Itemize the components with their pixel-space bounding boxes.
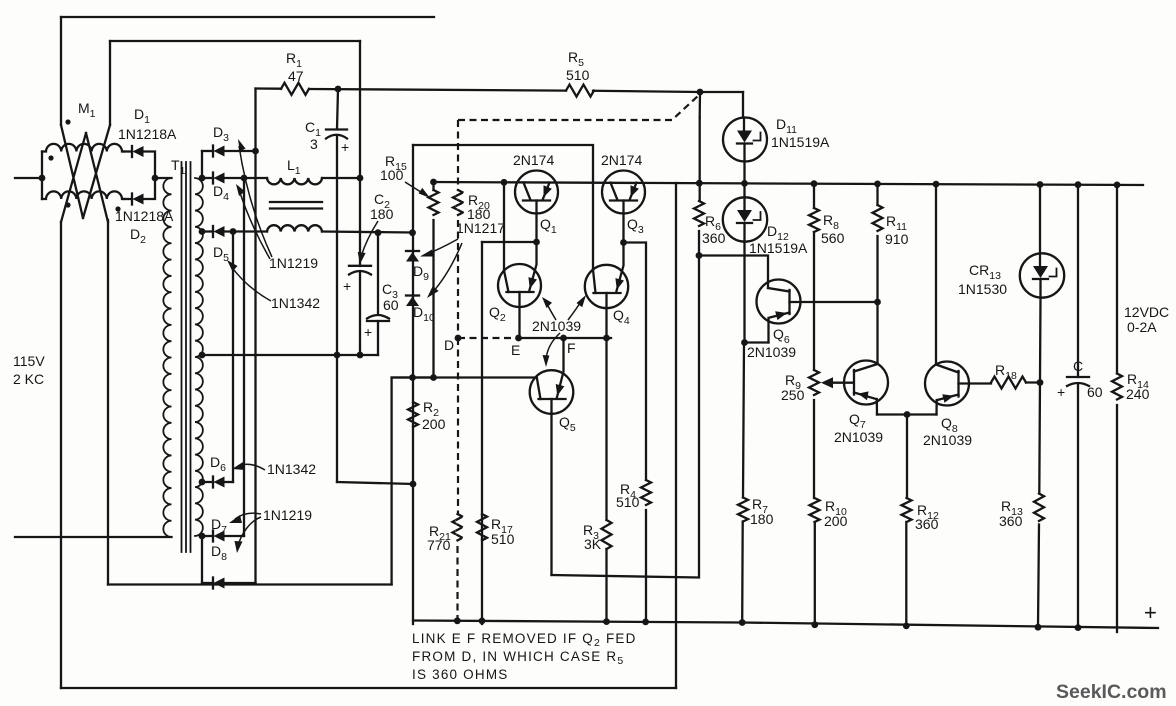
- svg-text:200: 200: [824, 513, 848, 529]
- polarity dot M1 d: [65, 202, 70, 207]
- wire D9 branch main vertical: [412, 145, 414, 624]
- wire R11 to Q7 node: [876, 236, 878, 302]
- resistor R11: [873, 205, 883, 231]
- junction dot L1-C2 node: [357, 175, 364, 182]
- junction dot Q5 collector node: [409, 374, 416, 381]
- resistor R15: [429, 190, 439, 215]
- label arrow 1N1217 to D9: [427, 239, 458, 254]
- svg-text:D: D: [444, 337, 454, 353]
- wire R4 lower: [645, 510, 647, 622]
- wire D5 anode: [202, 230, 213, 232]
- wire R17 branch: [481, 242, 483, 624]
- magnetic amplifier M1 bottom winding: [42, 191, 124, 199]
- wire R5 output drop to D11: [700, 92, 743, 118]
- wire L1 to node: [322, 177, 360, 179]
- wire D7 riser: [243, 178, 245, 536]
- svg-text:510: 510: [616, 494, 640, 510]
- label arrow 1N1219 to D8: [238, 517, 261, 546]
- wire R7 lower: [741, 522, 744, 623]
- wire node to T1 primary: [155, 177, 172, 179]
- junction dot R10 bus: [811, 621, 818, 628]
- resistor R20 dashed: [453, 190, 463, 215]
- wire M1 bottom to D2: [124, 198, 132, 200]
- junction dot R15 top: [430, 179, 437, 186]
- diode D11 1N1519A: [723, 118, 767, 162]
- wire Q6 collector link: [699, 256, 768, 289]
- wire C1 branch lower: [336, 136, 338, 482]
- inductor L1 lower winding: [267, 225, 322, 231]
- magnetic amplifier M1 top winding: [42, 144, 124, 152]
- wire C3 lower lead: [377, 321, 379, 355]
- svg-text:180: 180: [370, 206, 394, 222]
- resistor R17: [477, 514, 487, 540]
- wire C lower: [1077, 385, 1079, 628]
- magnetic amplifier M1 core cross lines: [61, 125, 110, 222]
- wire secondary top riser to D3 row: [201, 151, 203, 178]
- wire Q5 collector line: [392, 376, 537, 378]
- label arrow 2N1039 to Q2: [546, 302, 556, 320]
- transistor Q2 2N1039: [498, 242, 541, 338]
- wire C3 upper lead: [377, 233, 379, 314]
- transistor Q7 2N1039: [844, 361, 888, 415]
- wire CR13 lower: [1038, 298, 1041, 628]
- label arrow 2N1039 to Q5: [546, 333, 560, 360]
- svg-text:510: 510: [491, 531, 515, 547]
- wire dashed R21 branch: [457, 338, 459, 514]
- wire outer border right riser: [675, 183, 677, 688]
- junction dot R6 row A: [696, 180, 703, 187]
- wire D3 anode: [202, 150, 213, 152]
- junction dot R7 bus: [739, 619, 746, 626]
- svg-text:1N1519A: 1N1519A: [749, 240, 808, 256]
- label arrow R15: [405, 182, 424, 194]
- wire R3 lower: [605, 549, 607, 622]
- transistor Q4 2N1039: [585, 243, 628, 339]
- wire Q6 emitter to D12 node: [745, 341, 769, 343]
- junction dot E: [515, 335, 522, 342]
- svg-text:1N1530: 1N1530: [958, 281, 1007, 297]
- svg-text:560: 560: [821, 230, 845, 246]
- wire D3 to node: [225, 150, 256, 152]
- svg-text:360: 360: [702, 230, 726, 246]
- svg-text:2N1039: 2N1039: [923, 432, 972, 448]
- junction dot F: [560, 335, 567, 342]
- node 115V input bottom lead: [15, 536, 172, 538]
- wire R14 lower: [1116, 405, 1118, 632]
- wire C1 line elbow to R2 line: [337, 482, 413, 484]
- svg-text:910: 910: [885, 231, 909, 247]
- svg-text:+: +: [364, 324, 372, 340]
- junction dot input-M1: [39, 175, 46, 182]
- svg-text:+: +: [343, 278, 351, 294]
- junction dot C bus: [1075, 624, 1082, 631]
- inductor L1 upper winding: [267, 178, 322, 184]
- wire E-F link row: [519, 337, 612, 339]
- svg-text:1N1219: 1N1219: [269, 255, 318, 271]
- wire R1-D3-D8 riser: [254, 89, 256, 584]
- junction dot Q2 collector riser top: [501, 179, 508, 186]
- polarity dot M1 b: [48, 155, 53, 160]
- label arrow 1N1342 to D6: [238, 464, 265, 470]
- wire inner border top: [110, 40, 360, 42]
- junction dot T1 tap D5: [199, 228, 206, 235]
- diode D6: [212, 477, 214, 488]
- junction dot R6 bottom: [696, 252, 703, 259]
- wire output negative bus: [413, 621, 1158, 629]
- svg-text:+: +: [1144, 600, 1157, 625]
- svg-text:F: F: [567, 340, 576, 356]
- wire inner border lower-left riser: [107, 220, 109, 585]
- junction dot T1 center tap: [199, 352, 206, 359]
- wire outer border left: [60, 17, 62, 688]
- label arrow 1N1219 to D4: [239, 190, 270, 259]
- junction dot D3-D8-R1: [252, 148, 259, 155]
- wire R12 lower: [905, 522, 907, 626]
- svg-text:360: 360: [915, 516, 939, 532]
- wire outer border bottom: [61, 687, 676, 689]
- junction dot R8 row A: [811, 180, 818, 187]
- junction dot R1-C1: [335, 86, 342, 93]
- wire Q2 collector riser: [503, 182, 505, 270]
- junction dot C row A: [1075, 181, 1082, 188]
- svg-text:1N1342: 1N1342: [267, 461, 316, 477]
- svg-text:47: 47: [288, 68, 304, 84]
- svg-text:+: +: [341, 139, 349, 155]
- wire Q5 base row to R6 node: [552, 256, 700, 578]
- wire D12 to emitter node: [743, 242, 745, 343]
- resistor R6: [694, 201, 704, 226]
- svg-text:0-2A: 0-2A: [1127, 319, 1157, 335]
- resistor R4: [641, 480, 651, 505]
- svg-text:250: 250: [781, 387, 805, 403]
- junction dot D4-D7: [241, 175, 248, 182]
- diode D10 1N1217: [406, 294, 419, 296]
- wire R3 branch: [605, 338, 607, 520]
- wire main positive row A: [434, 182, 1144, 185]
- wire D8 anode: [202, 582, 213, 584]
- wire R6 lower: [698, 231, 700, 256]
- wire D2 to T1 node: [144, 178, 156, 199]
- resistor R3: [602, 520, 612, 549]
- transistor Q1 2N174: [515, 171, 558, 243]
- wire R9 to R10: [813, 400, 815, 498]
- wire R12 branch: [906, 415, 908, 499]
- wire D4 anode: [202, 177, 213, 179]
- svg-text:510: 510: [566, 67, 590, 83]
- wire D11 to row A: [743, 162, 745, 198]
- svg-text:3: 3: [310, 136, 318, 152]
- resistor R1: [281, 83, 309, 95]
- wire dashed R20 branch upper: [457, 120, 459, 190]
- junction dot Q4 base R3 node: [603, 335, 610, 342]
- label arrow C2: [361, 221, 378, 257]
- junction dot D5-D6: [230, 228, 237, 235]
- wire inner border left: [109, 41, 111, 125]
- diode D2 1N1218A: [131, 194, 133, 205]
- wire R9 wiper from Q7 base: [829, 382, 854, 384]
- wire M1 top to D1: [124, 150, 132, 152]
- wire D4 row to L1: [225, 177, 268, 179]
- wire D6 riser: [232, 232, 234, 483]
- diode D5: [212, 226, 214, 237]
- wire D6 to riser: [225, 481, 234, 483]
- resistor R10: [810, 498, 820, 522]
- junction dot R11 row A: [874, 181, 881, 188]
- wire D6 anode: [202, 481, 213, 483]
- wire dashed feedback top: [458, 95, 700, 121]
- wire dashed D link row: [458, 337, 519, 339]
- wire inner border right riser to Q5 node: [392, 378, 434, 585]
- svg-text:+: +: [1057, 384, 1065, 400]
- svg-text:360: 360: [999, 513, 1023, 529]
- junction dot Q3 base node: [620, 239, 627, 246]
- transistor Q3 2N174: [602, 171, 645, 243]
- capacitor C2: [349, 265, 371, 267]
- label arrow 1N1217 to D10: [432, 243, 462, 293]
- wire R1-R5 supply row: [256, 89, 744, 93]
- junction dot R17 bus: [479, 618, 486, 625]
- junction dot T1 bottom tap: [199, 533, 206, 540]
- diode D12 1N1519A: [723, 197, 767, 241]
- junction dot R18 CR13: [1037, 379, 1044, 386]
- transformer T1 primary winding: [163, 178, 171, 537]
- diode D9 1N1217: [406, 250, 419, 252]
- wire dashed R21 lower: [456, 546, 458, 621]
- wire R8 upper: [813, 184, 815, 208]
- resistor R5: [566, 85, 594, 97]
- capacitor C: [1067, 376, 1089, 378]
- transformer T1 core: [182, 162, 191, 552]
- wire R14 upper: [1116, 185, 1118, 374]
- junction dot D6 anode tap: [199, 479, 206, 486]
- svg-text:1N1218A: 1N1218A: [115, 208, 174, 224]
- junction dot C2 row right end: [409, 229, 416, 236]
- capacitor C1: [326, 128, 347, 130]
- wire lower winding to C2 row: [322, 232, 412, 233]
- svg-text:60: 60: [1087, 384, 1103, 400]
- svg-text:1N1219: 1N1219: [263, 507, 312, 523]
- svg-text:IS 360 OHMS: IS 360 OHMS: [412, 667, 508, 682]
- svg-text:240: 240: [1126, 386, 1150, 402]
- wire L1 feed line to Q4 collector: [413, 145, 593, 268]
- transistor Q6 2N1039: [757, 280, 878, 343]
- junction dot R21 bus: [454, 617, 461, 624]
- wire D1 to T1 node: [144, 152, 156, 179]
- svg-text:1N1519A: 1N1519A: [771, 134, 830, 150]
- svg-text:100: 100: [380, 167, 404, 183]
- diode D1 1N1218A: [131, 146, 133, 157]
- label arrow 2N1039 to Q4: [568, 300, 582, 320]
- junction dot D12-R7: [741, 339, 748, 346]
- wire Q8 collector riser: [935, 184, 937, 364]
- node 115V input top lead: [15, 177, 42, 179]
- wire Q7 collector riser: [876, 302, 878, 364]
- junction dot CR13 bus: [1035, 624, 1042, 631]
- diode D8: [212, 578, 214, 589]
- wire D8 to riser: [225, 582, 256, 584]
- junction dot D11-D12 row A: [741, 180, 748, 187]
- inductor L1 core lines: [270, 202, 322, 209]
- resistor R18: [991, 377, 1026, 389]
- wire CR13 upper: [1039, 185, 1041, 254]
- wire outer border top: [61, 16, 434, 18]
- wire R7 branch: [743, 343, 744, 498]
- capacitor C3: [367, 315, 389, 319]
- svg-text:1N1342: 1N1342: [271, 295, 320, 311]
- wire dashed R20 branch lower: [457, 220, 459, 338]
- magnetic amplifier M1 left lead: [41, 152, 43, 200]
- wire R10 lower: [814, 522, 816, 625]
- svg-text:115V: 115V: [13, 353, 45, 369]
- diode CR13 1N1530: [1020, 253, 1064, 297]
- junction dot T1 top tap: [199, 175, 206, 182]
- junction dot R3 bus: [603, 618, 610, 625]
- resistor R2: [408, 402, 418, 427]
- diode D7: [212, 531, 214, 542]
- svg-text:180: 180: [750, 511, 774, 527]
- label arrow 1N1219 to D7: [235, 513, 261, 519]
- transformer T1 secondary winding: [195, 178, 203, 536]
- wire Q3 base to R4 branch: [624, 243, 647, 481]
- junction dot Q1 base node: [533, 239, 540, 246]
- svg-text:200: 200: [422, 416, 446, 432]
- svg-text:2N174: 2N174: [601, 152, 642, 168]
- wire C2 lower lead: [359, 273, 361, 355]
- wire D7 anode: [202, 535, 213, 537]
- polarity dot M1 a: [65, 119, 70, 124]
- wire R15 branch: [432, 182, 434, 378]
- junction dot D: [455, 335, 462, 342]
- transistor Q5 2N1039: [530, 338, 574, 575]
- wire center tap row: [202, 354, 378, 356]
- label arrow 1N1219 to D3: [239, 146, 272, 257]
- svg-text:770: 770: [427, 537, 451, 553]
- svg-text:12VDC: 12VDC: [1124, 304, 1169, 320]
- junction dot D6 wire node: [410, 481, 417, 488]
- wire D7 to riser: [225, 535, 245, 537]
- wire D5 row to lower L1 coil: [225, 230, 268, 232]
- wire inner border bottom: [108, 583, 392, 585]
- svg-text:E: E: [511, 342, 520, 358]
- junction dot R14 row A: [1114, 182, 1121, 189]
- diode D3: [212, 146, 214, 157]
- junction dot C2 bottom: [357, 352, 364, 359]
- wire D8 drop: [201, 536, 203, 583]
- diode D4: [212, 173, 214, 184]
- svg-text:2N174: 2N174: [513, 152, 554, 168]
- junction dot D1-D2-T1: [152, 175, 159, 182]
- wire R6 branch upper: [699, 118, 701, 202]
- junction dot Q6 base R11 node: [874, 299, 881, 306]
- junction dot R4 bus: [642, 619, 649, 626]
- wire R11 upper: [876, 184, 878, 205]
- junction dot C3 top: [375, 229, 382, 236]
- svg-text:2N1039: 2N1039: [834, 429, 883, 445]
- junction dot CR13 row A: [1037, 181, 1044, 188]
- resistor R13: [1034, 494, 1044, 522]
- wire C1 branch upper: [337, 89, 338, 129]
- resistor R14: [1112, 374, 1122, 400]
- wire R18 to CR13 branch: [1026, 381, 1040, 383]
- resistor R8: [809, 208, 819, 232]
- svg-text:1N1217: 1N1217: [456, 220, 505, 236]
- junction dot Q8 collector row A: [933, 181, 940, 188]
- resistor R12: [902, 498, 912, 522]
- label arrow 1N1342 to D5: [231, 266, 271, 301]
- wire R8 to R9: [813, 232, 815, 370]
- svg-text:3K: 3K: [584, 536, 602, 552]
- svg-text:2N1039: 2N1039: [532, 318, 581, 334]
- svg-text:1N1218A: 1N1218A: [118, 126, 177, 142]
- junction dot R15 bottom: [430, 374, 437, 381]
- svg-text:C: C: [1073, 358, 1083, 374]
- transistor Q8 2N1039: [925, 362, 991, 415]
- polarity dot M1 c: [115, 206, 120, 211]
- resistor R21 dashed: [453, 514, 463, 540]
- junction dot R12 bus: [903, 623, 910, 630]
- svg-text:2 KC: 2 KC: [13, 371, 44, 387]
- svg-text:2N1039: 2N1039: [747, 344, 796, 360]
- potentiometer R9: [809, 370, 819, 395]
- wire Q2 collector link row: [482, 241, 537, 243]
- junction dot R5 output: [697, 89, 704, 96]
- resistor R7: [738, 498, 748, 522]
- junction dot emitter link R12: [904, 411, 911, 418]
- wire C upper: [1077, 185, 1079, 377]
- svg-text:SeekIC.com: SeekIC.com: [1056, 681, 1167, 703]
- wire inner border right riser through C2: [359, 41, 361, 266]
- svg-text:60: 60: [383, 297, 399, 313]
- wire Q7-Q8 emitter link: [877, 413, 937, 415]
- junction dot C1 line at tap row: [334, 352, 341, 359]
